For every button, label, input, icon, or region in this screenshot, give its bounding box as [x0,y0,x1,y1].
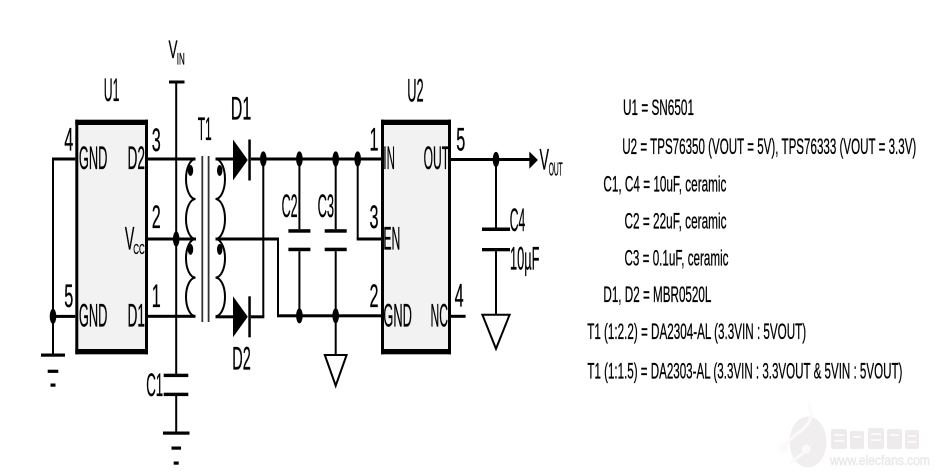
wire C3 ground stem [335,316,337,355]
junction node C2 bottom [296,308,303,323]
svg-text:U1 = SN6501: U1 = SN6501 [623,95,694,120]
wire secondary center tap [216,238,280,241]
junction node VCC / VIN [173,231,180,246]
svg-text:OUT: OUT [549,160,563,180]
svg-text:D1: D1 [128,298,146,334]
phase dot secondary lower [217,244,222,255]
wire U1 pin3 D2 to transformer primary top [148,158,196,161]
svg-text:5: 5 [64,278,73,314]
junction node EN riser [354,151,361,166]
svg-text:C3: C3 [318,188,335,224]
junction node C3 bottom [332,308,339,323]
svg-text:D2: D2 [232,341,251,377]
svg-text:1: 1 [370,122,379,158]
wire left vertical pin4 to ground [52,158,54,356]
svg-text:GND: GND [383,298,412,334]
svg-text:GND: GND [79,140,108,176]
wire D2 riser vertical [262,159,264,317]
watermark logo circle [779,404,827,468]
svg-text:4: 4 [64,122,73,158]
svg-text:4: 4 [455,278,464,314]
svg-text:EN: EN [383,221,400,257]
svg-text:D2: D2 [128,140,146,176]
wire secondary bottom to D2 anode [216,315,234,318]
svg-text:C4: C4 [510,202,526,238]
diode D1 [233,140,251,181]
ground symbol (earth) below U1 left [41,354,65,387]
wire secondary top to D1 anode [216,158,234,161]
VIN terminal bar [169,81,185,84]
svg-text:2: 2 [370,278,379,314]
junction node C3 top [332,151,339,166]
svg-text:www.elecfans.com: www.elecfans.com [829,452,930,468]
svg-text:1: 1 [152,278,161,314]
wire U2 OUT to VOUT arrow [451,158,530,161]
diode D2 [233,296,251,337]
parts list text block [587,95,916,383]
ground symbol (open triangle) below C3 [325,355,347,386]
svg-text:C2 = 22uF, ceramic: C2 = 22uF, ceramic [625,209,727,234]
top rail D1 cathode to U2 IN [251,158,381,161]
secondary ground rail to U2 GND [277,314,381,317]
svg-text:V: V [540,143,550,176]
IC U1 SN6501 body [75,120,148,355]
wire D2 cathode to riser [251,315,264,318]
wire U1 pin1 D1 to transformer primary bottom [148,315,196,318]
phase dot secondary top [217,165,222,176]
junction node C4 top [493,152,500,167]
junction node at left ground [50,309,57,324]
svg-text:10µF: 10µF [510,241,540,277]
svg-text:OUT: OUT [424,140,450,176]
wire U1 pin2 VCC to transformer primary center tap [148,238,196,241]
wire U1 pin4 to left vertical [52,158,75,161]
wire U1 pin5 GND [52,315,75,318]
VOUT arrow head [529,152,538,169]
svg-text:C1: C1 [146,367,163,403]
svg-text:C1, C4 = 10uF, ceramic: C1, C4 = 10uF, ceramic [603,172,726,197]
wire EN riser to U2 EN pin [357,238,381,241]
watermark chinese text (approximated shapes) [831,428,919,449]
wire center tap step down [277,239,279,316]
wire VIN vertical down to C1 [175,82,177,375]
svg-text:U2: U2 [407,73,423,109]
svg-text:U2 = TPS76350 (VOUT = 5V), TPS: U2 = TPS76350 (VOUT = 5V), TPS76333 (VOU… [622,134,916,159]
ground symbol (open triangle) below C4 [482,315,509,349]
U1 pin name VCC (pin 2) [125,221,145,259]
svg-text:T1 (1:2.2) = DA2304-AL (3.3VIN: T1 (1:2.2) = DA2304-AL (3.3VIN : 5VOUT) [587,319,806,344]
transformer T1 secondary winding [216,159,226,316]
wire U2 NC stub [451,315,466,318]
capacitor C2 [288,159,310,316]
svg-text:CC: CC [133,241,145,258]
wire EN riser vertical [357,159,359,239]
svg-text:NC: NC [431,298,449,334]
svg-text:T1: T1 [198,111,212,147]
transformer T1 primary winding [186,159,196,316]
capacitor C1 [164,374,189,396]
svg-text:2: 2 [152,199,161,235]
phase dot primary lower [188,244,193,255]
svg-text:T1 (1:1.5) = DA2303-AL (3.3VIN: T1 (1:1.5) = DA2303-AL (3.3VIN : 3.3VOUT… [587,358,902,383]
svg-text:3: 3 [152,122,161,158]
capacitor C3 [325,159,347,316]
VOUT label [540,143,563,179]
svg-text:GND: GND [79,298,108,334]
svg-text:C3 = 0.1uF, ceramic: C3 = 0.1uF, ceramic [625,245,729,270]
phase dot primary top [188,165,193,176]
transformer T1 core lines [201,156,203,322]
IC U2 TPS76350 body [381,120,451,355]
svg-text:D1, D2 = MBR0520L: D1, D2 = MBR0520L [603,282,711,307]
svg-text:D1: D1 [231,90,252,126]
svg-text:U1: U1 [104,72,120,108]
VIN label [169,36,185,69]
svg-text:IN: IN [177,50,185,69]
junction node C2 top [296,151,303,166]
svg-text:C2: C2 [282,188,298,224]
capacitor C4 [482,160,510,315]
svg-text:5: 5 [456,122,465,158]
svg-text:IN: IN [383,140,395,176]
wire C1 to ground [175,396,177,433]
junction node D2 riser on top rail [260,151,267,166]
svg-text:3: 3 [370,199,379,235]
ground symbol (earth) below C1 [163,432,190,465]
